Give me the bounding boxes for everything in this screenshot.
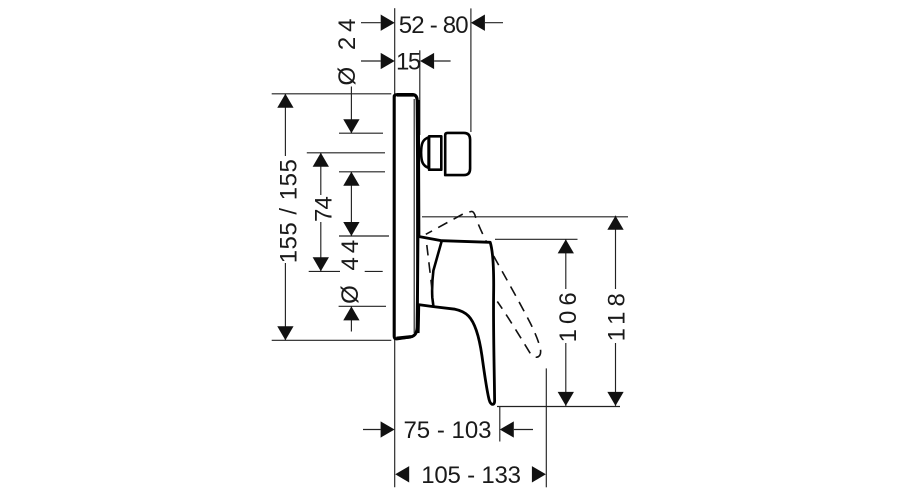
svg-text:106: 106 <box>555 287 582 342</box>
svg-text:Ø 44: Ø 44 <box>337 236 364 304</box>
svg-text:15: 15 <box>396 49 421 76</box>
svg-text:155 / 155: 155 / 155 <box>275 159 302 264</box>
svg-text:74: 74 <box>311 197 338 223</box>
svg-text:52 - 80: 52 - 80 <box>399 12 469 39</box>
svg-text:105 - 133: 105 - 133 <box>421 462 521 489</box>
svg-text:75 - 103: 75 - 103 <box>403 417 491 444</box>
svg-text:118: 118 <box>604 288 631 341</box>
svg-text:Ø 24: Ø 24 <box>334 13 361 85</box>
